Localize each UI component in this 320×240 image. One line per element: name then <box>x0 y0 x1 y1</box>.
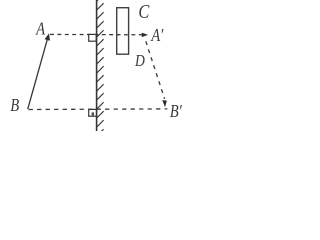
square hole top on wall <box>89 34 97 41</box>
svg-text:A′: A′ <box>151 24 164 45</box>
square hole bottom on wall <box>89 109 97 116</box>
arrowhead at A' <box>142 33 148 38</box>
wall vertical line <box>96 0 98 131</box>
arrowhead at B' <box>162 100 167 107</box>
rectangle C D <box>117 8 129 55</box>
scan blob inside bottom square <box>92 112 94 115</box>
svg-text:C: C <box>138 0 149 23</box>
wire dashed line A to A' <box>50 33 144 35</box>
svg-text:B: B <box>10 94 19 115</box>
arrowhead at A <box>45 33 50 40</box>
wall hatching <box>97 0 104 136</box>
wire dashed diagonal A' to B' <box>146 41 165 99</box>
svg-text:D: D <box>134 51 145 70</box>
svg-text:A: A <box>35 18 45 39</box>
svg-text:B′: B′ <box>170 100 182 121</box>
wire solid line B to A <box>28 35 49 109</box>
wire dashed line B to B' <box>29 108 168 111</box>
